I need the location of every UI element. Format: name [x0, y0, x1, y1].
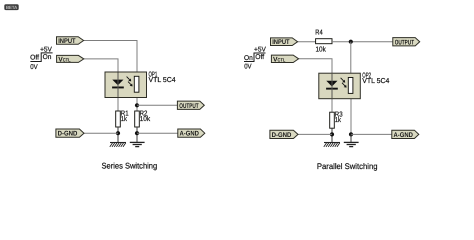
svg-text:10k: 10k [140, 115, 151, 123]
opto box OP2 [319, 73, 361, 99]
svg-text:R4: R4 [315, 29, 322, 37]
wire R2 to ground [136, 127, 138, 142]
wire VCTL to LED anode (right) [299, 59, 332, 73]
flag A-GND (right) [392, 130, 419, 139]
wire R2 bottom to A-GND flag [137, 132, 178, 134]
wire LDR bottom to A-GND flag [351, 133, 392, 135]
op-amp/opto box OP1 [105, 72, 147, 98]
svg-text:OUTPUT: OUTPUT [395, 39, 415, 46]
wire junction down to LDR [350, 42, 352, 73]
svg-text:A-GND: A-GND [180, 131, 199, 138]
wire LDR vertical through box to R2 [136, 72, 138, 111]
svg-text:Off: Off [30, 55, 39, 62]
wire D-GND flag to R1 bottom [84, 132, 118, 134]
node A-GND junction [135, 131, 139, 135]
wire R1 to ground [117, 127, 119, 143]
wire LED vertical through box to R1 [117, 72, 119, 111]
node A-GND junction (right) [349, 132, 353, 136]
wire to OUTPUT flag [137, 104, 177, 106]
photoresistor (LDR) inside OP2 [348, 78, 353, 94]
caption Series Switching [102, 162, 158, 171]
flag VCTL (left) [57, 55, 84, 63]
svg-text:On: On [244, 55, 253, 62]
watermark badge [4, 4, 18, 10]
label OP2 VTL 5C4 [362, 71, 389, 85]
svg-text:VCTL: VCTL [273, 56, 285, 63]
flag A-GND (left) [178, 129, 205, 138]
svg-text:+5V: +5V [40, 47, 52, 54]
node OUTPUT junction [135, 103, 139, 107]
svg-text:+5V: +5V [254, 47, 266, 54]
wire LDR vertical through box to ground [350, 73, 352, 134]
flag OUTPUT (left) [177, 101, 204, 110]
svg-text:10k: 10k [316, 45, 327, 53]
flag D-GND (left) [56, 129, 84, 138]
node junction R4/LDR [349, 40, 353, 44]
svg-text:On: On [43, 54, 52, 61]
svg-text:INPUT: INPUT [272, 39, 290, 46]
resistor R4 [315, 29, 332, 54]
ground analog (earth) under LDR (right) [344, 142, 359, 146]
wire D-GND flag to R3 bottom [298, 133, 332, 135]
svg-text:Off: Off [255, 54, 264, 61]
LED inside OP1 [112, 73, 124, 98]
ground analog (earth) under R2 [130, 142, 145, 146]
svg-text:D-GND: D-GND [272, 132, 292, 139]
wire LDR bottom stub to earth [350, 134, 352, 142]
flag INPUT (right) [271, 38, 298, 46]
ground digital (hatched) under R3 [324, 143, 340, 147]
svg-text:BETA: BETA [6, 5, 18, 10]
switch widget left (+5V/Off/On/0V) [30, 47, 52, 71]
wire INPUT to LDR top [84, 41, 137, 73]
wire R3 to ground [331, 128, 333, 142]
light arrows inside OP1 [127, 77, 133, 87]
resistor R1 [116, 109, 129, 127]
light arrows inside OP2 [341, 78, 347, 88]
LED inside OP2 [326, 74, 338, 99]
svg-text:VTL 5C4: VTL 5C4 [362, 77, 389, 85]
flag VCTL (right) [271, 55, 298, 63]
svg-text:A-GND: A-GND [394, 132, 413, 139]
photoresistor (LDR) inside OP1 [134, 76, 139, 92]
svg-text:Parallel Switching: Parallel Switching [317, 162, 378, 171]
flag OUTPUT (right) [393, 38, 420, 47]
svg-text:INPUT: INPUT [58, 38, 76, 45]
svg-text:OUTPUT: OUTPUT [179, 103, 199, 110]
svg-text:D-GND: D-GND [58, 131, 78, 138]
wire R4 to OUTPUT flag [332, 41, 393, 43]
svg-text:0V: 0V [30, 64, 38, 71]
node D-GND junction [116, 131, 120, 135]
resistor R3 [330, 110, 343, 128]
svg-text:1k: 1k [121, 115, 128, 123]
flag D-GND (right) [270, 130, 298, 139]
wire VCTL to LED anode [84, 59, 118, 72]
caption Parallel Switching [317, 162, 378, 171]
resistor R2 [135, 109, 151, 127]
wire INPUT to R4 [298, 41, 316, 43]
ground digital (hatched) under R1 [110, 143, 126, 147]
svg-text:0V: 0V [244, 64, 252, 71]
svg-text:VTL 5C4: VTL 5C4 [149, 76, 176, 84]
node D-GND junction (right) [330, 132, 334, 136]
svg-text:Series Switching: Series Switching [102, 162, 158, 171]
svg-text:VCTL: VCTL [58, 56, 70, 63]
svg-text:1k: 1k [335, 116, 342, 124]
flag INPUT (left) [57, 37, 84, 45]
label OP1 VTL 5C4 [149, 70, 176, 84]
switch widget right (+5V/On/Off/0V) [244, 47, 266, 71]
wire LED vertical through box to R3 [331, 73, 333, 112]
